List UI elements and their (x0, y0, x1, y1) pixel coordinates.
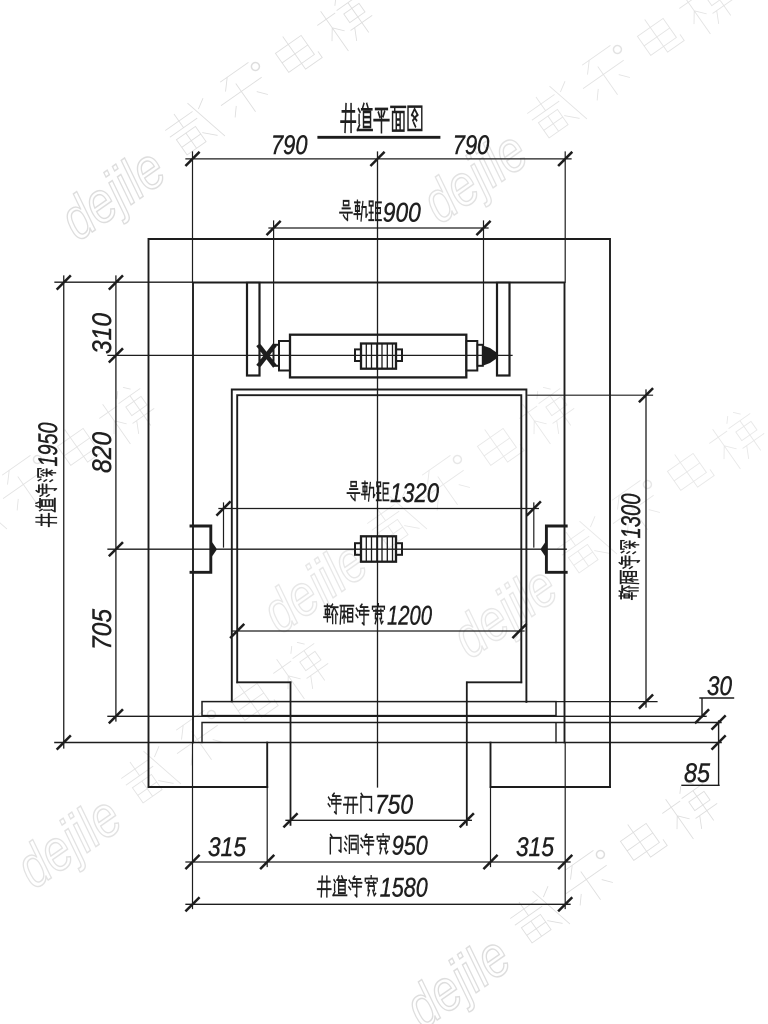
轿厢净深1300 rotated (616, 494, 646, 600)
dim I chain (115, 276, 117, 721)
dim A 790/790 (186, 158, 571, 160)
svg-text:1950: 1950 (33, 423, 63, 467)
dim G 1580 (186, 903, 570, 905)
title underline (319, 136, 439, 139)
car walls (232, 390, 527, 702)
井道净深1950 rotated (33, 423, 63, 527)
extension: top refs up (193, 152, 566, 283)
extension: 1300 top (528, 394, 653, 396)
净开门750 (328, 793, 371, 813)
extension: 1320 (224, 503, 534, 547)
cwt body (290, 335, 466, 378)
svg-text:1320: 1320 (390, 478, 439, 508)
svg-text:85: 85 (684, 758, 711, 788)
car rail bracket right (546, 526, 566, 572)
导轨距900 (340, 200, 381, 220)
dim D 1200 (233, 630, 524, 632)
cwt guide rails (247, 283, 260, 376)
85 leader (682, 721, 719, 785)
shaft inner wall (193, 283, 565, 743)
extension: jambs down (267, 787, 490, 867)
dim J 1300 (645, 390, 647, 707)
svg-text:1580: 1580 (380, 873, 428, 903)
door jambs (267, 743, 490, 788)
car rail center block (361, 536, 396, 561)
dim F 315/950/315 (186, 861, 570, 863)
dim C 1320 (219, 508, 538, 510)
svg-text:750: 750 (375, 790, 413, 820)
导轨距1320 (347, 481, 388, 500)
30 leader (700, 698, 734, 717)
svg-text:790: 790 (271, 130, 308, 160)
cwt horizontal axis (310/820 line) (108, 354, 512, 356)
shaft outer wall (149, 239, 611, 787)
extension: 900 (274, 221, 484, 360)
svg-text:1200: 1200 (387, 601, 432, 631)
井道净宽1580 (318, 876, 378, 897)
dim H 1950 (63, 276, 65, 748)
svg-text:30: 30 (707, 671, 732, 701)
bottom inner wall long line (55, 742, 721, 744)
轿厢净宽1200 (324, 604, 385, 625)
sill upper rect (202, 702, 556, 716)
center vertical axis (377, 152, 379, 787)
extension: inner walls down (193, 743, 566, 909)
svg-text:705: 705 (87, 608, 117, 650)
left rotated: 310 820 705 (87, 313, 117, 650)
long line L1 (705 end) (108, 715, 706, 717)
cwt center block (361, 344, 396, 369)
svg-text:790: 790 (453, 130, 490, 160)
inner wall top extension to left (55, 281, 193, 283)
sill lower rect + L2 (202, 723, 721, 743)
extension: 750 door (291, 682, 467, 825)
svg-text:950: 950 (392, 831, 428, 861)
car rail bracket left (191, 526, 211, 572)
svg-text:1300: 1300 (616, 494, 646, 539)
svg-text:900: 900 (383, 198, 421, 228)
dim E 750 (286, 819, 471, 821)
svg-text:315: 315 (208, 832, 247, 862)
dim B 900 (269, 227, 488, 229)
svg-text:315: 315 (516, 832, 555, 862)
car rail horizontal axis (108, 548, 566, 550)
title 井道平面图 (341, 104, 422, 132)
门洞净宽950 (330, 834, 389, 855)
svg-text:820: 820 (87, 432, 117, 473)
svg-text:310: 310 (87, 313, 117, 354)
